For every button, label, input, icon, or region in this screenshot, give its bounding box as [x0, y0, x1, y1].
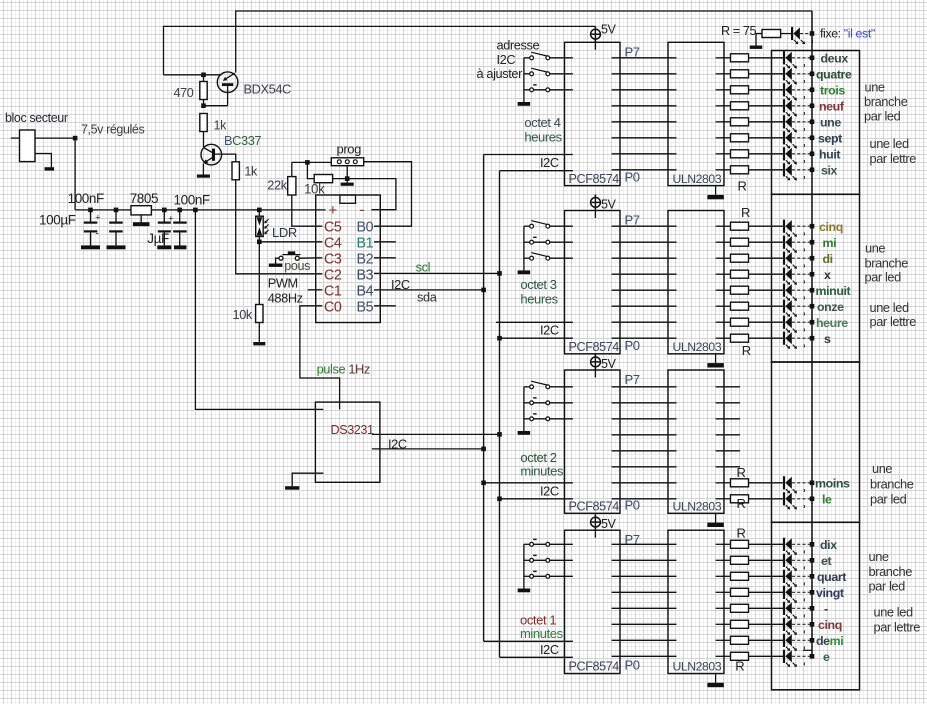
switch S11 [524, 57, 530, 59]
wire i2c upper [484, 154, 573, 156]
LED - [783, 602, 785, 615]
LED group frame [772, 522, 860, 690]
resistor R 470 [200, 82, 207, 100]
wire pcf-uln [612, 153, 677, 155]
wire uln to resistor [716, 639, 731, 641]
svg-text:BC337: BC337 [224, 133, 261, 148]
svg-text:branche: branche [869, 564, 913, 579]
resistor R row e [731, 652, 749, 660]
wire pcf-uln [612, 337, 677, 339]
wire pcf-uln [612, 543, 677, 545]
wire i2c lower [500, 170, 573, 172]
wire 22k to C5 [292, 195, 323, 226]
ground [253, 342, 265, 345]
svg-text:P7: P7 [625, 213, 640, 228]
wire resistor to LED et [749, 559, 784, 561]
svg-text:heures: heures [524, 129, 562, 144]
wire pcf-uln [612, 241, 677, 243]
wire uln to resistor [716, 153, 731, 155]
svg-text:P0: P0 [625, 658, 640, 673]
switch S42 [524, 559, 530, 561]
capacitor C2 100nF [115, 210, 117, 222]
regulator U1 7805 [131, 206, 151, 215]
LED heure [783, 316, 785, 329]
stub wire [716, 402, 740, 404]
svg-text:100nF: 100nF [68, 191, 104, 206]
resistor R row heure [731, 318, 749, 326]
svg-text:moins: moins [815, 476, 850, 490]
svg-text:100µF: 100µF [39, 213, 76, 228]
wire resistor to LED trois [749, 89, 784, 91]
svg-text:minutes: minutes [520, 464, 564, 479]
wire pcf-uln [612, 289, 677, 291]
capacitor C4 100nF [179, 210, 181, 222]
svg-text:B0: B0 [357, 219, 374, 235]
svg-text:I2C: I2C [540, 155, 559, 170]
wire resistor to LED moins [749, 482, 784, 484]
svg-text:-: - [96, 229, 99, 240]
wire pcf-uln [612, 498, 677, 500]
resistor R row huit [731, 150, 749, 158]
ground [518, 589, 531, 593]
svg-text:P0: P0 [625, 338, 640, 353]
svg-text:PCF8574: PCF8574 [569, 660, 620, 674]
resistor R row mi [731, 238, 749, 246]
svg-text:1k: 1k [244, 165, 258, 179]
resistor R row s [731, 334, 749, 342]
stub wire [716, 450, 740, 452]
svg-text:C3: C3 [324, 251, 342, 267]
ground [750, 46, 763, 49]
svg-text:22k: 22k [267, 178, 287, 193]
PCF8574 IC U4 [565, 42, 621, 185]
wire uln to resistor [716, 289, 731, 291]
wire DS ground [292, 473, 323, 486]
svg-text:s: s [824, 332, 831, 346]
wire to 22k [291, 162, 293, 176]
wire pcf-uln [612, 169, 677, 171]
LED dix [783, 538, 785, 551]
switch S21 [524, 225, 530, 227]
wire resistor to LED six [749, 169, 784, 171]
LED quart [783, 570, 785, 583]
address switch group block 3 [523, 387, 525, 431]
svg-text:trois: trois [820, 83, 845, 97]
svg-text:branche: branche [865, 256, 909, 271]
wire pcf-uln [612, 591, 677, 593]
wire resistor to LED vingt [749, 591, 784, 593]
svg-text:octet 4: octet 4 [524, 115, 560, 130]
ULN ground [715, 186, 717, 195]
svg-text:10k: 10k [233, 307, 253, 322]
PCF8574 IC U5 [565, 211, 621, 354]
wire resistor to LED - [749, 607, 784, 609]
svg-text:cinq: cinq [819, 220, 843, 234]
address switch group block 4 [523, 544, 525, 588]
wire i2c upper [496, 321, 573, 323]
svg-text:une: une [865, 80, 885, 95]
svg-text:470: 470 [174, 86, 194, 100]
resistor R row x [731, 270, 749, 278]
wire resistor to LED demi [749, 639, 784, 641]
switch S23 [524, 257, 530, 259]
svg-text:sept: sept [818, 131, 842, 145]
wire pcf-uln [612, 607, 677, 609]
wire pcf-uln [612, 482, 677, 484]
svg-text:R: R [741, 205, 750, 220]
svg-text:six: six [821, 163, 838, 177]
svg-text:vingt: vingt [816, 586, 844, 600]
LED huit [783, 147, 785, 160]
svg-text:I2C: I2C [497, 52, 516, 67]
wire pcf-uln [612, 257, 677, 259]
wire resistor to LED e [749, 655, 784, 657]
stub wire [716, 386, 740, 388]
ground [518, 102, 531, 106]
wire pcf-uln [612, 450, 677, 452]
stub wire [716, 418, 740, 420]
resistor R row cinq4 [731, 620, 749, 628]
ground [518, 270, 531, 274]
LED sept [783, 131, 785, 144]
stub wire [716, 466, 740, 468]
svg-text:R: R [737, 465, 746, 480]
svg-text:C5: C5 [324, 219, 342, 235]
svg-text:P7: P7 [625, 532, 640, 547]
ground [81, 245, 100, 249]
resistor R row le [731, 495, 749, 503]
resistor R 1k [200, 114, 207, 132]
svg-text:5V: 5V [601, 517, 617, 531]
wire uln to resistor [716, 137, 731, 139]
switch S31 [524, 386, 530, 388]
wire uln to resistor [716, 543, 731, 545]
svg-text:minuit: minuit [816, 284, 851, 298]
resistor R fixe [762, 30, 781, 38]
svg-text:ULN2803: ULN2803 [673, 660, 722, 674]
svg-text:P0: P0 [625, 497, 640, 512]
svg-text:par led: par led [870, 492, 907, 507]
svg-text:C1: C1 [324, 283, 342, 299]
wire pcf-uln [612, 386, 677, 388]
LED mi [783, 236, 785, 249]
svg-text:par led: par led [869, 579, 906, 594]
svg-text:BDX54C: BDX54C [244, 82, 292, 97]
pin stub B5 [374, 305, 396, 307]
svg-text:une: une [820, 115, 841, 129]
pin stub B2 [374, 257, 396, 259]
resistor R row six [731, 166, 749, 174]
wire pcf-uln [612, 418, 677, 420]
resistor R row sept [731, 134, 749, 142]
svg-text:fixe: "il est": fixe: "il est" [820, 27, 875, 41]
wire uln to resistor [716, 498, 731, 500]
LED onze [783, 300, 785, 313]
wire uln to resistor [716, 105, 731, 107]
wire i2c upper [484, 482, 573, 484]
switch S33 [524, 418, 530, 420]
ground [518, 431, 531, 435]
wire resistor to LED cinq [749, 225, 784, 227]
wire 10k input [307, 162, 314, 178]
LED fixe il est [791, 27, 793, 40]
resistor R row deux [731, 54, 749, 62]
LED neuf [783, 99, 785, 112]
LED s [783, 332, 785, 345]
wire uln to resistor [716, 559, 731, 561]
resistor R row vingt [731, 588, 749, 596]
svg-text:cinq: cinq [818, 618, 842, 632]
svg-text:PCF8574: PCF8574 [569, 172, 620, 186]
svg-text:P7: P7 [625, 44, 640, 59]
switch S32 [524, 402, 530, 404]
svg-text:7,5v régulés: 7,5v régulés [81, 123, 144, 137]
wire pcf-uln [612, 559, 677, 561]
resistor R row une [731, 118, 749, 126]
wire resistor to LED minuit [749, 289, 784, 291]
svg-text:une: une [869, 549, 889, 564]
LED group frame [772, 362, 860, 522]
svg-text:C0: C0 [324, 299, 342, 315]
svg-text:R: R [742, 343, 751, 358]
PCF8574 IC U6 [565, 370, 621, 513]
svg-text:I2C: I2C [388, 437, 407, 452]
svg-text:par lettre: par lettre [874, 620, 921, 635]
LED demi [783, 634, 785, 647]
wire uln to resistor [716, 482, 731, 484]
svg-text:e: e [823, 650, 830, 664]
wire DS sda [372, 448, 484, 450]
capacitor C1 100uF [90, 210, 92, 222]
wire uln to resistor [716, 575, 731, 577]
svg-text:100nF: 100nF [174, 193, 210, 208]
ground [341, 183, 354, 186]
ground [45, 167, 55, 170]
ULN2803 IC U9 [668, 211, 724, 354]
svg-text:onze: onze [817, 300, 844, 314]
wire pcf-uln [612, 321, 677, 323]
LDR photoresistor [256, 216, 264, 236]
5V supply symbol block 2 [594, 195, 596, 219]
svg-text:10k: 10k [304, 182, 325, 197]
wire pcf-uln [612, 105, 677, 107]
svg-text:x: x [824, 268, 831, 282]
wire uln to resistor [716, 169, 731, 171]
wire prog center to ground [346, 166, 348, 183]
LED trois [783, 83, 785, 96]
wire resistor to LED deux [749, 57, 784, 59]
svg-text:+: + [168, 214, 173, 224]
wire [35, 137, 75, 139]
svg-text:par lettre: par lettre [870, 151, 917, 166]
svg-text:une led: une led [870, 136, 909, 151]
wire 7.5v rail [75, 209, 325, 211]
svg-text:R: R [737, 496, 746, 511]
wire pcf-uln [612, 434, 677, 436]
LED cinq [783, 220, 785, 233]
svg-text:scl: scl [416, 260, 430, 275]
wire resistor to LED cinq4 [749, 623, 784, 625]
ground [157, 245, 171, 249]
svg-text:ULN2803: ULN2803 [673, 500, 722, 514]
wire uln to resistor [716, 623, 731, 625]
bloc secteur (mains block) [20, 130, 36, 162]
svg-text:une led: une led [874, 605, 913, 620]
MCU U2 (PIC) box [316, 195, 381, 323]
wire pcf-uln [612, 57, 677, 59]
wire i2c lower [500, 498, 573, 500]
wire pcf-uln [612, 402, 677, 404]
resistor R row et [731, 556, 749, 564]
resistor R row quart [731, 572, 749, 580]
resistor R row - [731, 604, 749, 612]
wire pcf-uln [612, 273, 677, 275]
wire i2c lower [500, 656, 573, 658]
wire uln to resistor [716, 73, 731, 75]
svg-text:C2: C2 [324, 267, 342, 283]
LED et [783, 554, 785, 567]
capacitor C3 electrolytic [163, 210, 165, 222]
5V supply symbol block 4 [594, 514, 596, 538]
resistor R row trois [731, 86, 749, 94]
svg-text:5V: 5V [601, 197, 617, 211]
wire pcf-uln [612, 305, 677, 307]
resistor R row moins [731, 479, 749, 487]
wire prog to B0 [364, 162, 412, 227]
resistor R row onze [731, 302, 749, 310]
node LDR top [257, 208, 262, 213]
LED group frame [772, 194, 860, 362]
svg-text:P7: P7 [625, 372, 640, 387]
resistor R row dix [731, 540, 749, 548]
wire pcf-uln [612, 639, 677, 641]
svg-text:DS3231: DS3231 [331, 423, 375, 437]
svg-text:prog: prog [337, 142, 362, 157]
wire fixe gnd [756, 34, 762, 46]
wire pcf-uln [612, 466, 677, 468]
wire resistor to LED mi [749, 241, 784, 243]
ground [174, 245, 187, 249]
LED e [783, 650, 785, 663]
ground [107, 245, 126, 249]
svg-text:une: une [872, 461, 892, 476]
wire vcc to DS3231 [195, 210, 323, 410]
wire resistor to LED s [749, 337, 784, 339]
wire 10k to minus pin [333, 179, 396, 210]
svg-text:5V: 5V [601, 357, 617, 371]
wire uln to resistor [716, 591, 731, 593]
svg-text:PWM: PWM [268, 276, 298, 291]
svg-text:par led: par led [865, 270, 902, 285]
svg-text:quart: quart [817, 570, 846, 584]
resistor R row quatre [731, 70, 749, 78]
wire i2c upper [484, 640, 573, 642]
wire resistor to LED dix [749, 543, 784, 545]
wire resistor to LED quart [749, 575, 784, 577]
wire uln to resistor [716, 321, 731, 323]
pin stub C1 [308, 289, 323, 291]
wire uln to resistor [716, 273, 731, 275]
wire resistor to LED x [749, 273, 784, 275]
svg-text:huit: huit [819, 147, 840, 161]
ULN ground [715, 513, 717, 522]
svg-text:B3: B3 [357, 267, 374, 283]
pin stub B1 [374, 241, 396, 243]
wire resistor to LED onze [749, 305, 784, 307]
svg-text:minutes: minutes [520, 626, 564, 641]
svg-text:heures: heures [520, 292, 558, 307]
ground [197, 175, 210, 178]
svg-text:sda: sda [417, 290, 438, 305]
wire C4 [259, 241, 322, 243]
wire pcf-uln [612, 655, 677, 657]
wire LED common bus [811, 11, 813, 658]
svg-text:PCF8574: PCF8574 [569, 500, 620, 514]
wire resistor to LED neuf [749, 105, 784, 107]
svg-text:488Hz: 488Hz [268, 291, 303, 306]
wire 5v feed [164, 26, 596, 74]
svg-text:I2C: I2C [540, 323, 559, 338]
ULN2803 IC U8 [668, 42, 724, 185]
LED x [783, 268, 785, 281]
svg-text:pulse 1Hz: pulse 1Hz [317, 362, 370, 377]
resistor R 10k horizontal [314, 175, 332, 183]
transistor Q1 BDX54C [217, 72, 238, 93]
LED di [783, 252, 785, 265]
wire resistor to LED huit [749, 153, 784, 155]
svg-text:bloc secteur: bloc secteur [5, 111, 68, 125]
prog connector J1 [331, 158, 363, 166]
svg-text:et: et [821, 554, 831, 568]
stub wire [716, 434, 740, 436]
wire pwm to C2 [236, 180, 323, 274]
resistor R 10k lower [256, 305, 263, 323]
svg-text:-: - [824, 602, 828, 616]
svg-text:+: + [95, 213, 100, 223]
wire uln to resistor [716, 57, 731, 59]
wire resistor to LED quatre [749, 73, 784, 75]
wire [140, 215, 142, 222]
svg-text:1k: 1k [214, 119, 228, 133]
resistor R row di [731, 254, 749, 262]
svg-text:mi: mi [823, 236, 837, 250]
wire uln to resistor [716, 225, 731, 227]
node C4 junction [257, 240, 262, 245]
svg-text:LDR: LDR [272, 225, 297, 240]
wire pcf-uln [612, 137, 677, 139]
wire pcf-uln [612, 575, 677, 577]
switch S12 [524, 73, 530, 75]
wire resistor to LED di [749, 257, 784, 259]
LED minuit [783, 284, 785, 297]
wire uln to resistor [716, 241, 731, 243]
resistor R row minuit [731, 286, 749, 294]
svg-text:R: R [735, 659, 744, 674]
wire resistor to LED sept [749, 137, 784, 139]
wire uln to resistor [716, 607, 731, 609]
svg-text:le: le [822, 492, 832, 506]
LED vingt [783, 586, 785, 599]
wire uln to resistor [716, 257, 731, 259]
wire prog left [292, 161, 332, 163]
svg-text:R: R [737, 526, 746, 541]
svg-text:octet 3: octet 3 [520, 277, 556, 292]
resistor R 22k [288, 177, 296, 195]
svg-text:pous: pous [284, 259, 310, 273]
svg-text:ULN2803: ULN2803 [673, 172, 722, 186]
wire pcf-uln [612, 73, 677, 75]
ULN2803 IC U10 [668, 370, 724, 513]
